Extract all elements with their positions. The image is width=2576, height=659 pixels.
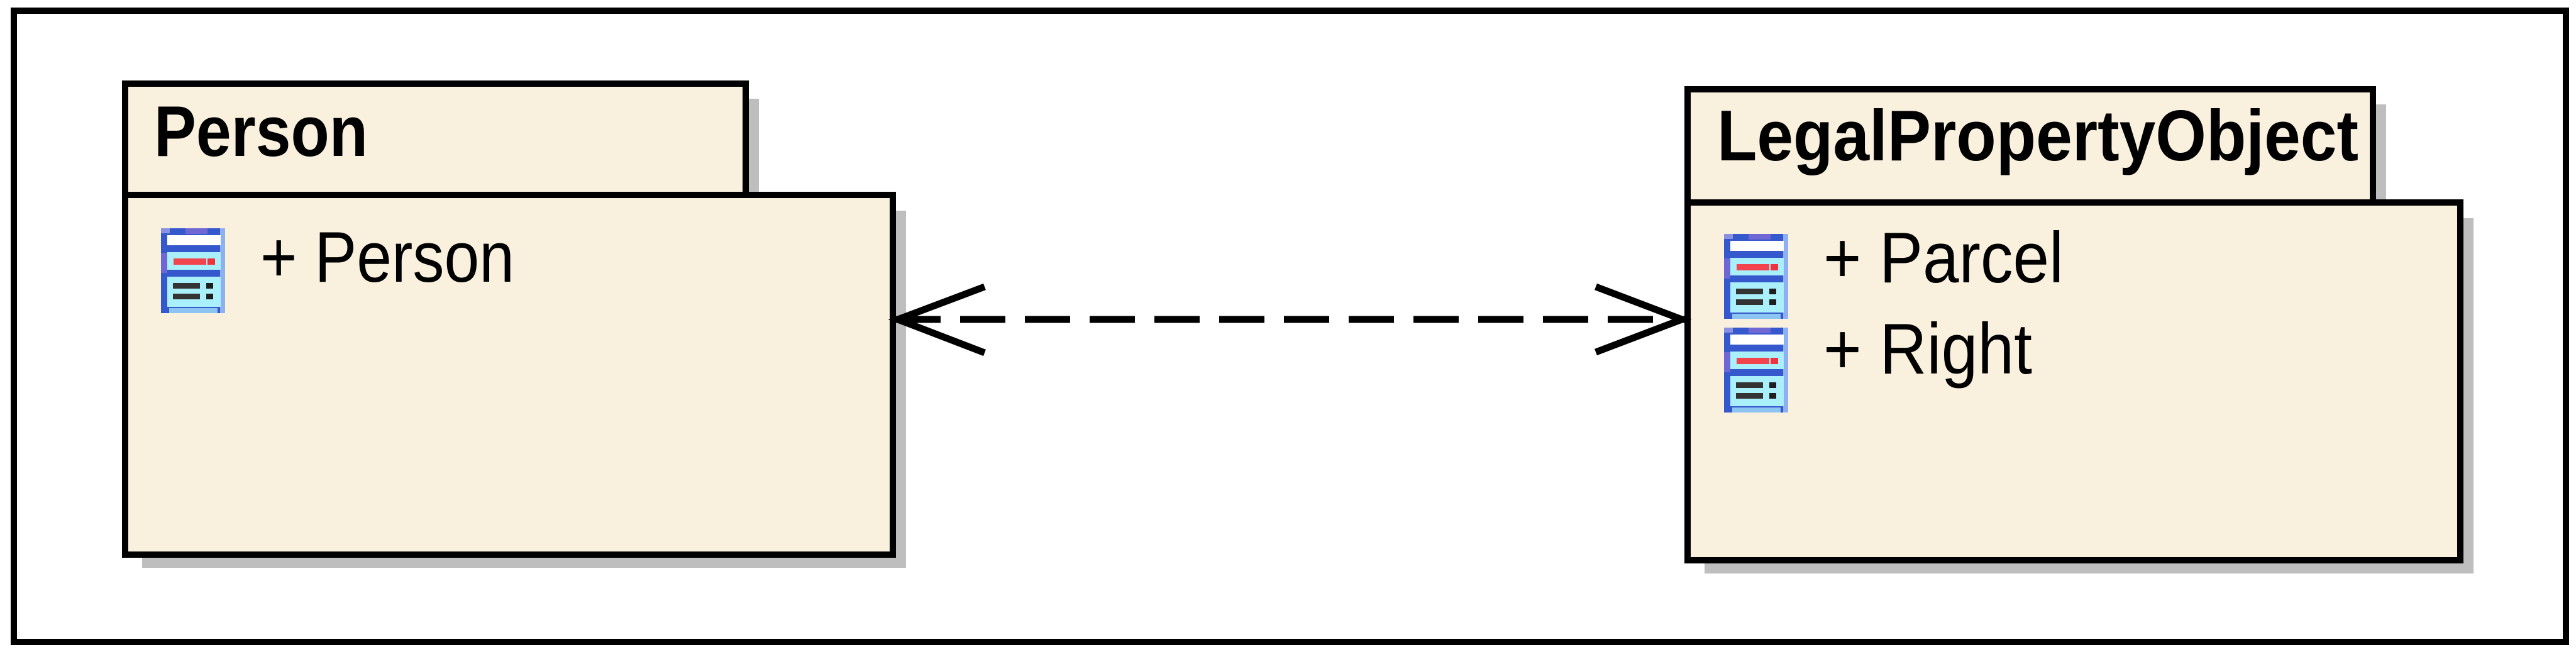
svg-text:LegalPropertyObject: LegalPropertyObject bbox=[1717, 96, 2358, 176]
diagram icon Person bbox=[161, 228, 225, 313]
package LegalPropertyObject body bbox=[1688, 202, 2460, 560]
arrowhead right (at LegalPropertyObject) bbox=[1596, 287, 1682, 352]
svg-text:+ Parcel: + Parcel bbox=[1823, 218, 2064, 298]
svg-text:Person: Person bbox=[154, 92, 368, 172]
package Person body shadow bbox=[142, 211, 906, 568]
package LegalPropertyObject tab bbox=[1688, 89, 2373, 203]
diagram icon Parcel bbox=[1724, 234, 1788, 319]
package Person tab shadow bbox=[142, 99, 759, 209]
package Person body bbox=[125, 195, 893, 555]
svg-text:+ Right: + Right bbox=[1823, 309, 2032, 389]
package LegalPropertyObject body shadow bbox=[1705, 218, 2474, 573]
dashed dependency wire bbox=[895, 316, 1684, 323]
svg-text:+ Person: + Person bbox=[260, 218, 514, 297]
package LegalPropertyObject tab shadow bbox=[1705, 104, 2386, 216]
arrowhead left (at Person) bbox=[898, 287, 985, 353]
diagram icon Right bbox=[1724, 328, 1788, 413]
package Person tab bbox=[125, 84, 746, 196]
